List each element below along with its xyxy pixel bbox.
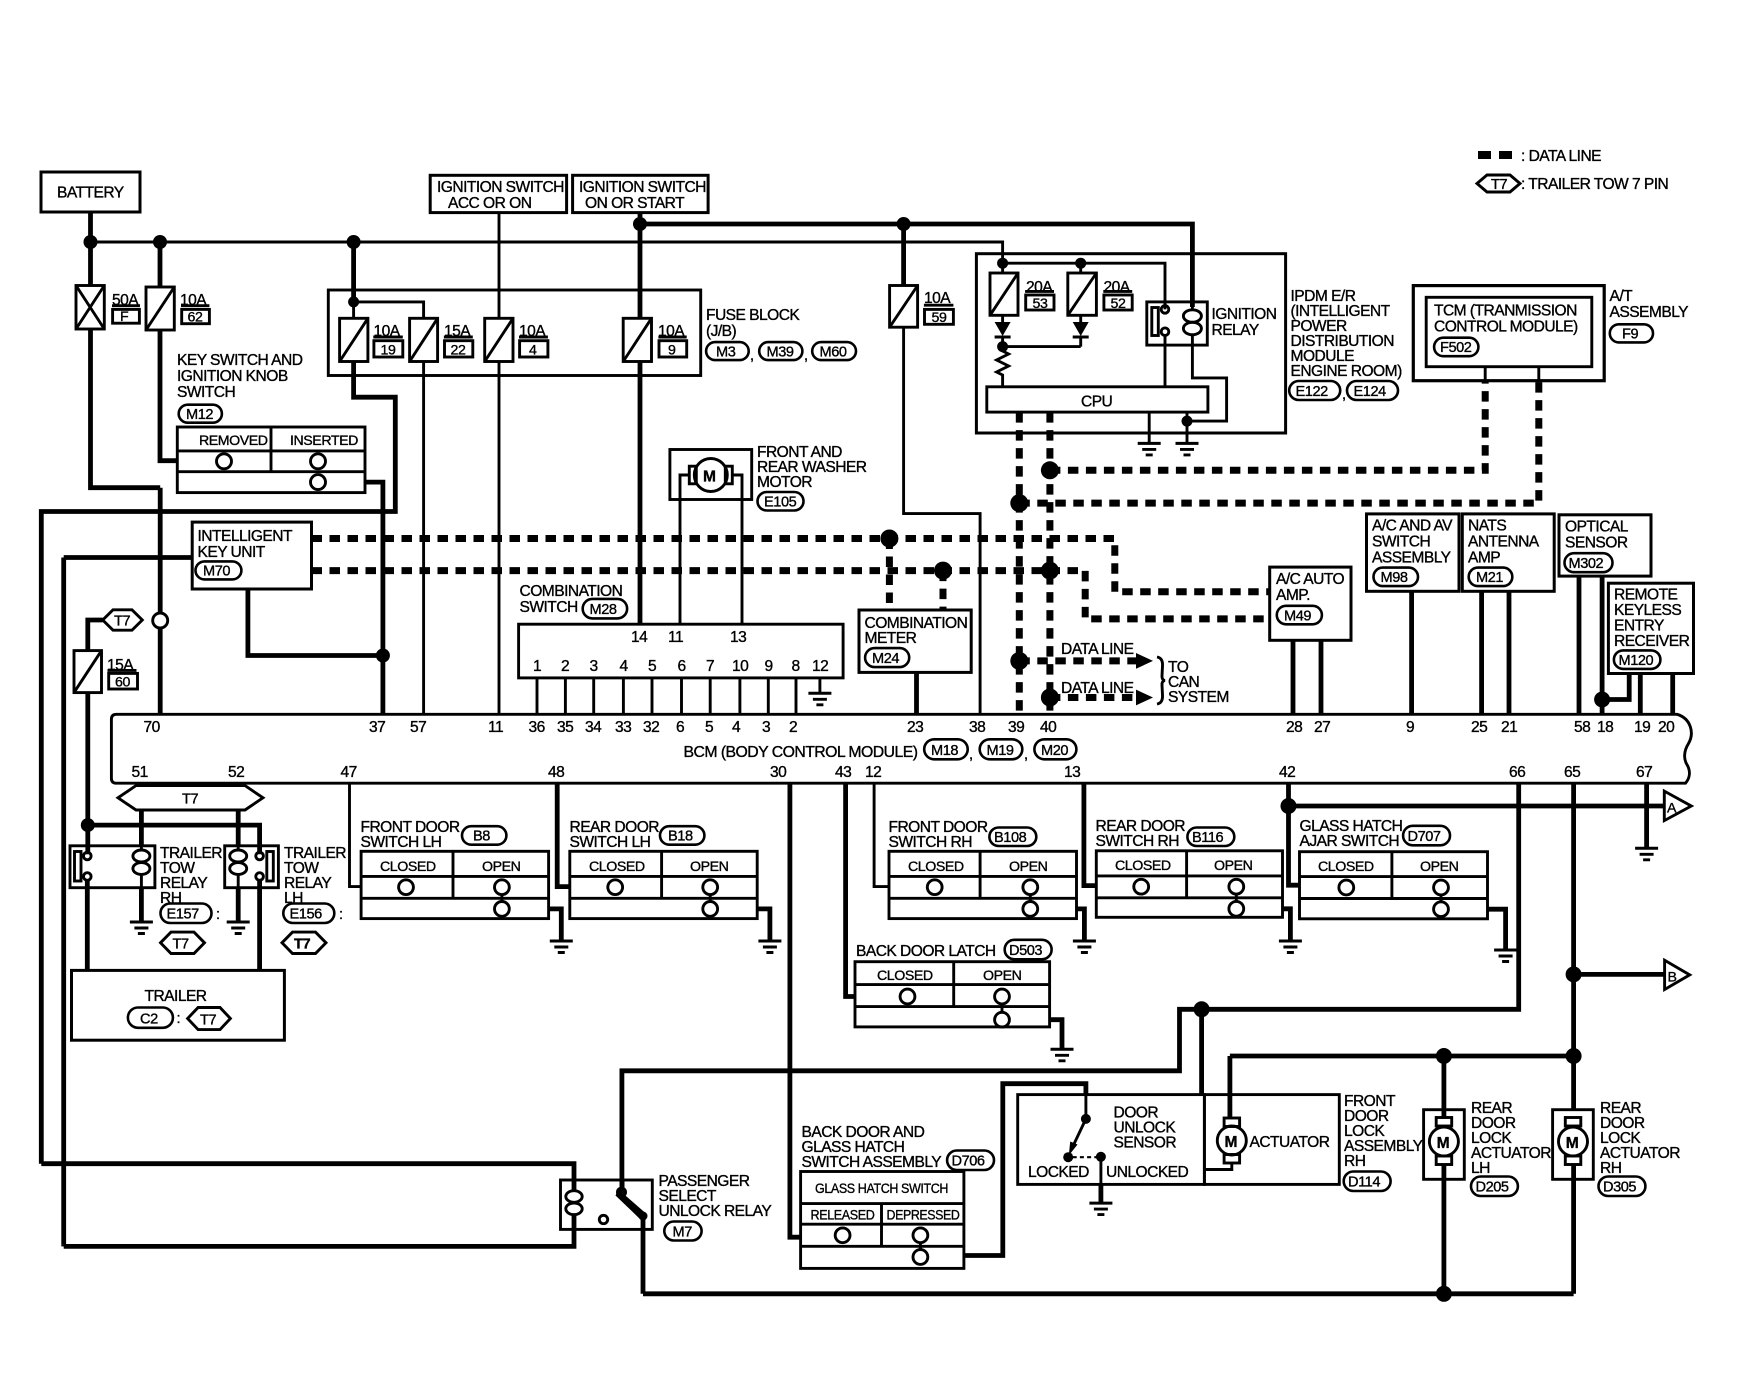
svg-text:METER: METER	[865, 630, 917, 647]
svg-text:18: 18	[1597, 719, 1613, 736]
wire BCM pin 66 down and left	[622, 783, 1519, 1192]
svg-text:INTELLIGENT: INTELLIGENT	[198, 528, 293, 545]
node fuse block inner	[348, 296, 359, 307]
IPDM E/R box	[976, 254, 1285, 433]
svg-text:21: 21	[1501, 719, 1517, 736]
svg-text:D305: D305	[1603, 1180, 1636, 1196]
svg-text:42: 42	[1279, 764, 1295, 781]
connector B116	[1187, 828, 1234, 847]
svg-text:(J/B): (J/B)	[706, 323, 737, 340]
combination switch box	[519, 624, 844, 678]
svg-text:M24: M24	[872, 651, 899, 667]
node trailer feed	[81, 818, 95, 832]
wire fuse 59 to BCM pin 38	[904, 327, 981, 714]
svg-text:53: 53	[1033, 296, 1048, 312]
washer motor M	[694, 459, 727, 492]
svg-text:E157: E157	[167, 907, 200, 923]
wire BCM pin 42 to glass hatch ajar	[1289, 783, 1300, 885]
node data line arrow 2	[1041, 689, 1059, 707]
svg-text:M: M	[1566, 1135, 1578, 1152]
svg-text:ENTRY: ENTRY	[1614, 618, 1665, 635]
connector M60	[812, 342, 856, 360]
svg-text:37: 37	[369, 719, 385, 736]
wire key switch table to BCM pin 37	[365, 482, 383, 714]
svg-text:CLOSED: CLOSED	[1115, 858, 1171, 874]
wire battery line down to T7 circle and BCM pin 70	[158, 488, 163, 715]
wire BCM pin 52 to T7 hex	[236, 783, 241, 785]
svg-text:BATTERY: BATTERY	[57, 185, 125, 202]
wire relay RH contact to trailer box	[85, 880, 90, 970]
wire fuse 9 to combination switch pin 14	[638, 362, 643, 625]
svg-text:4: 4	[529, 343, 537, 359]
wire relay coil to ground join	[1187, 345, 1227, 421]
wire left column x63 from key unit	[64, 558, 193, 1245]
connector B8	[462, 826, 506, 845]
svg-text:10A: 10A	[924, 290, 951, 307]
node pin 66 branch to door lock box	[1194, 1001, 1210, 1017]
ground back door latch	[1051, 1048, 1074, 1051]
svg-text:5: 5	[705, 719, 714, 736]
wire fuse 4 to BCM pin 11	[498, 362, 501, 715]
svg-text:34: 34	[585, 719, 602, 736]
data line CPU left to BCM pin 39	[1016, 412, 1023, 714]
dashed link locked unlocked	[1073, 1156, 1100, 1158]
connector F9	[1610, 324, 1653, 342]
T7 hexagon LH	[282, 932, 326, 953]
bus from battery (thin feed line)	[91, 242, 1003, 263]
node bottom bus D205	[1436, 1286, 1452, 1302]
ignition switch acc or on box	[430, 175, 566, 212]
data line CPU right to BCM pin 40	[1046, 412, 1053, 714]
wire trailer feed to LH contact	[88, 825, 260, 854]
wire D205 top	[1442, 1056, 1447, 1118]
svg-text:43: 43	[835, 764, 851, 781]
trailer box	[72, 970, 285, 1040]
svg-text:,: ,	[804, 348, 808, 364]
svg-text:70: 70	[144, 719, 161, 736]
svg-text:SWITCH LH: SWITCH LH	[361, 834, 442, 851]
wire keyless to pin 18 node	[1602, 674, 1629, 700]
ground IPDM 1	[1138, 442, 1161, 445]
wire fuse 22 to BCM pin 57	[422, 362, 425, 715]
svg-text:T7: T7	[294, 936, 310, 952]
fuse 19	[340, 318, 368, 361]
svg-text:F9: F9	[1622, 327, 1638, 343]
connector M3	[706, 342, 749, 360]
svg-text:10A: 10A	[658, 323, 685, 340]
wire BCM pin 47 to front door switch LH	[350, 783, 362, 886]
wire relay RH coil to ground	[139, 888, 144, 921]
legend: data line sample	[1478, 151, 1514, 159]
connector D706	[947, 1151, 994, 1171]
svg-text:SWITCH: SWITCH	[1372, 534, 1430, 551]
ignition switch on or start box	[573, 175, 709, 212]
fuse block J/B box	[328, 290, 700, 376]
wire D114 bottom to wall	[1204, 1163, 1231, 1170]
svg-text:IGNITION SWITCH: IGNITION SWITCH	[579, 179, 706, 196]
svg-text:4: 4	[732, 719, 741, 736]
svg-text:23: 23	[907, 719, 923, 736]
svg-text:11: 11	[668, 629, 683, 646]
svg-text:7: 7	[706, 658, 714, 675]
ground door unlock sensor	[1089, 1202, 1112, 1205]
svg-text:67: 67	[1636, 764, 1652, 781]
node bus2 meter drop	[934, 562, 952, 580]
fuse 60	[74, 651, 102, 693]
svg-text:OPEN: OPEN	[1420, 859, 1459, 875]
svg-text:CONTROL MODULE): CONTROL MODULE)	[1434, 319, 1578, 336]
rear door switch RH table	[1096, 851, 1282, 918]
svg-text:BCM (BODY CONTROL MODULE): BCM (BODY CONTROL MODULE)	[684, 744, 918, 761]
svg-text:T7: T7	[114, 614, 130, 630]
wire back door latch to ground	[1050, 1020, 1062, 1048]
svg-text:20: 20	[1658, 719, 1675, 736]
wire T7 hexagon to fuse 60	[88, 620, 103, 651]
svg-text:36: 36	[529, 719, 545, 736]
wire comb switch pin 12 to ground	[818, 678, 821, 693]
svg-text:15A: 15A	[444, 323, 471, 340]
fusible link F	[76, 286, 104, 330]
svg-text:12: 12	[812, 658, 828, 675]
svg-text:19: 19	[1634, 719, 1650, 736]
actuator M D205	[1436, 1118, 1452, 1127]
svg-text:RELAY: RELAY	[1212, 322, 1260, 339]
svg-text:5: 5	[648, 658, 657, 675]
unlocked contact	[1096, 1152, 1106, 1162]
svg-text:A: A	[1667, 801, 1677, 817]
connector M19	[980, 739, 1023, 759]
svg-text:32: 32	[643, 719, 659, 736]
svg-text:SENSOR: SENSOR	[1114, 1135, 1177, 1152]
rear door lock actuator LH box	[1424, 1110, 1465, 1180]
combination switch output wires to BCM	[537, 678, 796, 714]
wire M7 coil to key unit line	[64, 1215, 574, 1247]
key switch contact removed	[217, 454, 232, 469]
svg-text:M49: M49	[1284, 608, 1311, 624]
wire fuse53/52 tops	[1003, 263, 1165, 309]
svg-text:28: 28	[1286, 719, 1302, 736]
svg-text:SWITCH RH: SWITCH RH	[1096, 833, 1179, 850]
wire BCM pin 30 down	[790, 783, 801, 1237]
connector E157	[161, 904, 212, 924]
data line arrow 2 to CAN	[1050, 694, 1136, 701]
back door latch table	[855, 962, 1050, 1027]
intelligent key unit box	[192, 522, 311, 589]
svg-text:M98: M98	[1381, 570, 1408, 586]
svg-text:15A: 15A	[107, 657, 134, 674]
wire washer motor right pin to comb switch 13	[732, 475, 742, 624]
svg-text:20A: 20A	[1104, 279, 1131, 296]
wire node to door lock box wall	[1199, 1009, 1204, 1094]
connector F502	[1434, 338, 1478, 357]
svg-text:AJAR SWITCH: AJAR SWITCH	[1300, 833, 1400, 850]
diode below fuse 53	[1001, 315, 1004, 322]
rear door lock actuator RH box	[1553, 1110, 1594, 1180]
svg-text:NATS: NATS	[1468, 518, 1506, 535]
node fuse 53 top	[997, 258, 1008, 269]
data line arrow 1 to CAN	[1019, 657, 1136, 664]
svg-text:CLOSED: CLOSED	[589, 859, 645, 875]
connector M24	[865, 648, 909, 667]
wire washer motor left pin to comb switch 11	[680, 475, 689, 624]
actuator M D114	[1224, 1118, 1240, 1127]
svg-text:E122: E122	[1296, 384, 1329, 400]
svg-text:39: 39	[1008, 719, 1024, 736]
connector M18	[924, 739, 968, 759]
svg-text:OPEN: OPEN	[983, 968, 1022, 984]
CPU box	[987, 387, 1208, 412]
svg-text:ASSEMBLY: ASSEMBLY	[1372, 550, 1452, 567]
wire fuse 62 to key switch table	[160, 330, 177, 461]
combination meter box	[859, 610, 971, 672]
T7 hexagon wide	[118, 786, 263, 810]
wire D305 bottom to bus	[1571, 1165, 1576, 1294]
svg-text:E156: E156	[290, 907, 323, 923]
svg-text:51: 51	[132, 764, 148, 781]
svg-text:20A: 20A	[1026, 279, 1053, 296]
svg-text:D707: D707	[1408, 829, 1441, 845]
svg-text:OPEN: OPEN	[1214, 858, 1253, 874]
wire key unit bottom to pin37 node	[248, 589, 383, 656]
svg-text:M302: M302	[1569, 556, 1604, 572]
node relay ground join	[1182, 416, 1193, 427]
svg-text:M60: M60	[820, 344, 847, 360]
resistor	[997, 347, 1009, 387]
node pin 42 branch	[1281, 798, 1297, 814]
trailer tow relay RH box	[70, 846, 155, 888]
connector D305	[1599, 1177, 1646, 1197]
trailer tow relay LH box	[225, 846, 279, 888]
node bus2 pin40	[1041, 562, 1059, 580]
optical sensor box	[1559, 515, 1651, 576]
svg-text:OPEN: OPEN	[690, 859, 729, 875]
svg-text:62: 62	[188, 310, 203, 326]
svg-text:9: 9	[668, 343, 676, 359]
wire fusible link down to corner	[91, 329, 161, 488]
washer motor box	[670, 450, 752, 500]
svg-text:RELEASED: RELEASED	[811, 1208, 875, 1224]
ground trailer RH	[130, 921, 153, 924]
wire BCM pin 65 down	[1571, 783, 1576, 1109]
svg-text:IGNITION: IGNITION	[1212, 306, 1277, 323]
svg-text:E105: E105	[764, 495, 797, 511]
node fuse62 bus	[153, 235, 167, 249]
svg-text:3: 3	[590, 658, 598, 675]
fuse label underlines	[112, 304, 140, 307]
svg-text:3: 3	[762, 719, 770, 736]
ground rear door RH	[1279, 940, 1302, 943]
node battery bus	[84, 235, 98, 249]
svg-text:ON OR START: ON OR START	[585, 195, 685, 212]
wire T7 to trailer relay LH coil	[236, 810, 241, 846]
T7 hexagon trailer	[188, 1008, 231, 1030]
svg-text:T7: T7	[200, 1012, 216, 1028]
svg-text:,: ,	[1342, 387, 1346, 403]
svg-text:OPEN: OPEN	[482, 859, 521, 875]
svg-text:: TRAILER TOW 7 PIN: : TRAILER TOW 7 PIN	[1521, 176, 1668, 193]
wire CPU grounds	[1149, 412, 1187, 443]
svg-text:65: 65	[1564, 764, 1581, 781]
node data line A	[1041, 461, 1059, 479]
remote keyless entry receiver box	[1608, 583, 1693, 673]
ignition relay box	[1147, 302, 1208, 345]
passenger select unlock relay box	[561, 1180, 653, 1229]
svg-text:2: 2	[789, 719, 797, 736]
wire on/start to fuse 9	[638, 213, 643, 319]
svg-text::: :	[339, 907, 343, 923]
front door lock assembly box	[1204, 1095, 1339, 1185]
svg-text:6: 6	[678, 658, 686, 675]
svg-text:SWITCH: SWITCH	[520, 599, 578, 616]
svg-text:SWITCH ASSEMBLY: SWITCH ASSEMBLY	[802, 1154, 943, 1171]
svg-text:27: 27	[1314, 719, 1330, 736]
data line A to TCM	[1050, 381, 1485, 471]
key switch contact inserted row1	[311, 454, 326, 469]
data line drop to combination meter 1	[886, 539, 893, 611]
svg-text:40: 40	[1040, 719, 1057, 736]
NATS antenna amp box	[1462, 514, 1554, 591]
ground trailer LH	[227, 921, 250, 924]
connector B18	[660, 826, 704, 845]
svg-text:TRAILER: TRAILER	[145, 988, 207, 1005]
connector M21	[1469, 568, 1513, 587]
wire M7 contact out to bottom bus	[641, 1216, 646, 1294]
svg-text:FUSE BLOCK: FUSE BLOCK	[706, 307, 800, 324]
wire x63 vertical bottom	[61, 1245, 66, 1247]
svg-text:REMOTE: REMOTE	[1614, 587, 1678, 604]
svg-text:35: 35	[557, 719, 574, 736]
key switch contact inserted row2	[311, 475, 326, 490]
ignition relay contact	[1152, 308, 1159, 336]
node key unit join on pin37 wire	[376, 649, 390, 663]
svg-text:RH: RH	[1344, 1153, 1365, 1170]
fuse 9	[623, 318, 651, 361]
svg-text:57: 57	[410, 719, 426, 736]
svg-text:M: M	[1437, 1135, 1449, 1152]
svg-text:10: 10	[732, 658, 749, 675]
svg-text:B: B	[1668, 970, 1677, 986]
actuator M D305	[1565, 1118, 1581, 1127]
svg-text:59: 59	[932, 310, 947, 326]
wire glass hatch ajar to ground	[1488, 909, 1506, 949]
wire bus to fusible link F	[88, 242, 93, 286]
svg-text:M120: M120	[1619, 653, 1654, 669]
data line bus1 from key unit to A/C auto amp	[312, 539, 1270, 592]
svg-text:M: M	[703, 469, 715, 486]
svg-text:10A: 10A	[180, 292, 207, 309]
locked contact	[1063, 1152, 1073, 1162]
svg-text:OPTICAL: OPTICAL	[1565, 519, 1629, 536]
ground comb switch	[808, 692, 831, 695]
svg-text:DATA LINE: DATA LINE	[1061, 641, 1134, 658]
connector D503	[1005, 940, 1052, 960]
relay LH coil	[237, 846, 240, 850]
connector M49	[1277, 606, 1322, 625]
svg-text:ANTENNA: ANTENNA	[1468, 534, 1540, 551]
svg-text:RECEIVER: RECEIVER	[1614, 633, 1690, 650]
wire fuse 59 feed	[901, 224, 906, 286]
svg-text:LH: LH	[1471, 1160, 1490, 1177]
svg-text:30: 30	[770, 764, 787, 781]
connector B108	[989, 828, 1036, 847]
svg-text:: DATA LINE: : DATA LINE	[1521, 148, 1601, 165]
front door switch RH table	[889, 851, 1077, 918]
legend: T7 trailer tow 7 pin symbol	[1477, 175, 1520, 192]
A/C auto amp box	[1270, 567, 1351, 640]
svg-text:2: 2	[561, 658, 569, 675]
svg-text:E124: E124	[1354, 384, 1387, 400]
A/T assembly box	[1413, 286, 1604, 381]
node data line B	[1010, 494, 1028, 512]
svg-text:ACC OR ON: ACC OR ON	[448, 195, 531, 212]
svg-text:,: ,	[750, 348, 754, 364]
fuse 62	[146, 287, 174, 330]
svg-text:60: 60	[115, 675, 130, 691]
wire node to arrow B	[1574, 972, 1665, 977]
svg-text:KEYLESS: KEYLESS	[1614, 602, 1681, 619]
svg-text:ACTUATOR: ACTUATOR	[1250, 1134, 1330, 1151]
svg-text:M39: M39	[767, 344, 794, 360]
horizontal lock actuator feed	[1230, 1056, 1574, 1118]
svg-text:GLASS HATCH SWITCH: GLASS HATCH SWITCH	[815, 1181, 948, 1197]
data line drop to combination meter 2	[940, 571, 947, 610]
svg-text:9: 9	[1406, 719, 1414, 736]
ground rear door LH	[758, 940, 781, 943]
svg-text:25: 25	[1471, 719, 1488, 736]
relay RH contact	[75, 852, 82, 882]
connector M7	[664, 1222, 701, 1241]
wire BCM pin 12 to front door switch RH	[874, 783, 889, 886]
wire meter to BCM pin 23	[914, 672, 919, 714]
arrow B	[1665, 960, 1690, 989]
svg-text::: :	[216, 907, 220, 923]
TCM pin stubs	[1485, 367, 1539, 381]
svg-text:UNLOCKED: UNLOCKED	[1106, 1164, 1189, 1181]
relay LH contact	[267, 852, 274, 882]
wire NATS to BCM pin 25	[1479, 591, 1484, 714]
node fuse 52 top	[1075, 258, 1086, 269]
node data line arrow 1	[1010, 652, 1028, 670]
connector M302	[1565, 553, 1613, 572]
svg-text:DEPRESSED: DEPRESSED	[887, 1208, 960, 1224]
connector E156	[283, 904, 334, 924]
svg-text:52: 52	[1111, 296, 1126, 312]
wire trailer feed to RH contact	[85, 825, 90, 854]
node fuseblock bus	[347, 235, 361, 249]
node bus on/start	[633, 217, 647, 231]
door unlock sensor box	[1018, 1095, 1205, 1185]
svg-text:19: 19	[381, 343, 396, 359]
svg-text:M12: M12	[186, 407, 213, 423]
svg-text:T7: T7	[1491, 177, 1507, 193]
data line bus2 from key unit to A/C auto amp	[312, 571, 1270, 619]
ground front door RH	[1073, 940, 1096, 943]
svg-text:SWITCH: SWITCH	[177, 384, 235, 401]
svg-text:KEY SWITCH AND: KEY SWITCH AND	[177, 352, 303, 369]
connector M98	[1374, 568, 1419, 587]
svg-text:13: 13	[1064, 764, 1080, 781]
svg-text:M70: M70	[203, 564, 230, 580]
svg-text:CLOSED: CLOSED	[877, 968, 933, 984]
svg-text:33: 33	[615, 719, 631, 736]
wire BCM pin 48 to rear door switch LH	[557, 783, 570, 886]
wire BCM pin 51 to T7 hex	[139, 783, 144, 785]
svg-text:M20: M20	[1041, 743, 1068, 759]
svg-text:REMOVED: REMOVED	[199, 433, 268, 449]
svg-text:KEY UNIT: KEY UNIT	[198, 544, 266, 561]
svg-text:47: 47	[341, 764, 357, 781]
svg-text:IGNITION KNOB: IGNITION KNOB	[177, 368, 288, 385]
